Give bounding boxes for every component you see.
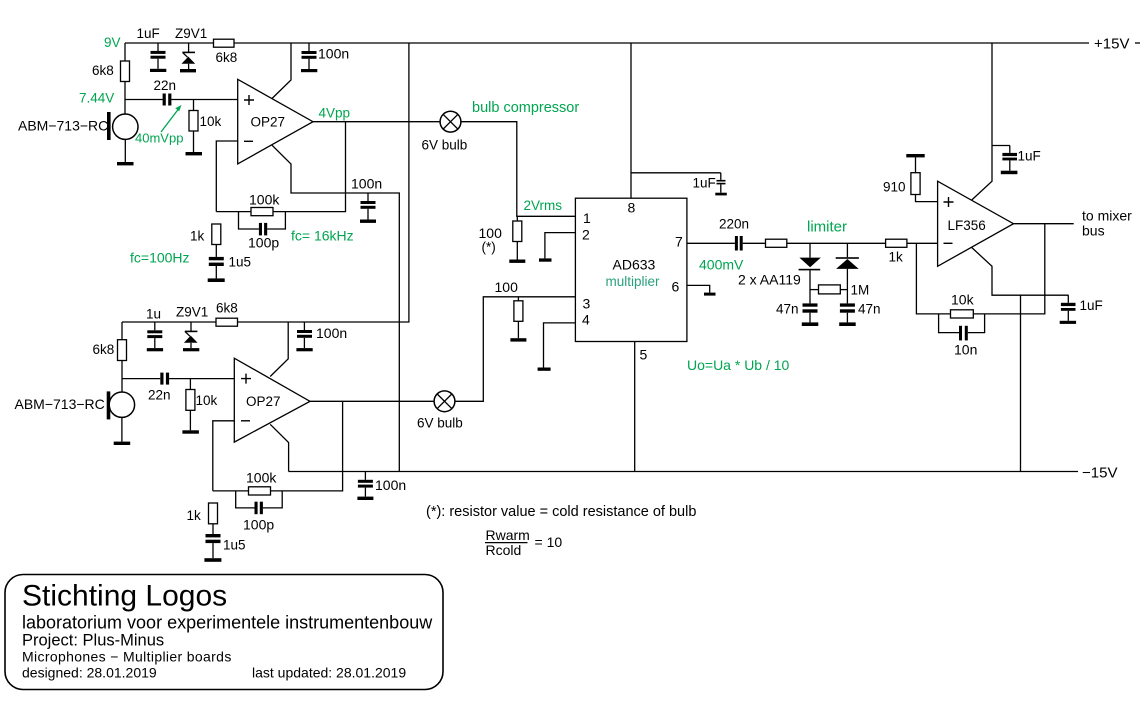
wire LF356 output xyxy=(1014,223,1074,225)
capacitor 1uF (ch1 9V decoupling) xyxy=(157,43,159,52)
ground (zener ch2) xyxy=(183,348,199,351)
svg-text:ABM−713−RC: ABM−713−RC xyxy=(15,396,105,412)
svg-text:400mV: 400mV xyxy=(699,257,744,273)
svg-text:LF356: LF356 xyxy=(948,218,986,233)
wire -15V rail xyxy=(289,471,1078,473)
wire 220n to series resistor xyxy=(743,242,766,244)
wire 22n ch2 to opamp xyxy=(169,378,234,380)
op-amp LF356 xyxy=(938,181,1014,266)
resistor 1k (LF356 input) xyxy=(886,239,907,247)
resistor 1M xyxy=(810,289,819,291)
ground (100n ch2 V+) xyxy=(296,348,312,351)
wire OP27 ch1 V+ pin to +15V xyxy=(272,43,291,99)
ground (47n left) xyxy=(802,322,819,326)
svg-text:Project: Plus-Minus: Project: Plus-Minus xyxy=(22,632,164,650)
svg-text:+15V: +15V xyxy=(1094,36,1129,53)
wire mic2 node to 22n xyxy=(122,378,160,380)
svg-text:limiter: limiter xyxy=(807,219,847,236)
wire bulb ch1 to AD633 pin1 xyxy=(461,122,575,217)
ground (1uF LF356 V-) xyxy=(1060,321,1076,324)
svg-text:OP27: OP27 xyxy=(246,394,281,409)
resistor 100 (ch2 bulb load) xyxy=(517,297,519,301)
svg-text:2Vrms: 2Vrms xyxy=(524,198,563,213)
svg-text:designed: 28.01.2019: designed: 28.01.2019 xyxy=(22,665,157,681)
ground (1u5 ch2) xyxy=(204,558,221,562)
svg-text:100n: 100n xyxy=(318,46,349,62)
wire V- to -15V rail xyxy=(1020,295,1022,471)
wire AD633 pin8 to +15V xyxy=(630,43,632,198)
ground (100 ch2) xyxy=(510,338,526,341)
wire AD633 pin6 to ground xyxy=(687,285,710,292)
lamp 6V bulb (ch1) xyxy=(440,111,461,132)
resistor (series, unlabeled) xyxy=(766,239,787,247)
resistor 1k (ch2) xyxy=(209,503,218,524)
wire V+ decoupling branch xyxy=(992,145,1010,147)
resistor 10k (ch2) xyxy=(189,379,191,390)
svg-text:8: 8 xyxy=(628,200,636,216)
svg-text:6k8: 6k8 xyxy=(92,63,114,78)
capacitor 47n (right) xyxy=(840,303,855,306)
wire LF356 feedback xyxy=(916,224,1044,314)
resistor 10k (LF356 feedback) xyxy=(951,310,974,318)
ground (mic ch1) xyxy=(117,162,134,165)
resistor 10k (ch1) xyxy=(193,100,195,111)
capacitor 100n (ch2 V+ decoupling) xyxy=(303,322,305,330)
wire AD633 pin5 to -15V xyxy=(634,342,636,472)
svg-text:Stichting Logos: Stichting Logos xyxy=(22,580,227,613)
resistor 100k (ch2) xyxy=(249,487,271,495)
svg-text:2 x AA119: 2 x AA119 xyxy=(738,272,801,288)
diode AA119 (left, anode up) xyxy=(809,243,811,257)
resistor 6k8 (ch1 horizontal from +15V) xyxy=(214,39,235,47)
svg-text:1u5: 1u5 xyxy=(223,538,246,553)
op-amp OP27 (ch1) xyxy=(238,79,313,164)
wire 22n to opamp xyxy=(171,99,237,101)
svg-text:10k: 10k xyxy=(196,393,218,408)
svg-text:7: 7 xyxy=(675,234,683,250)
svg-text:6: 6 xyxy=(672,279,680,295)
svg-text:6k8: 6k8 xyxy=(216,50,238,65)
svg-text:to mixer: to mixer xyxy=(1082,208,1132,224)
svg-text:2: 2 xyxy=(582,227,590,243)
svg-text:22n: 22n xyxy=(148,388,171,403)
resistor 910 xyxy=(915,157,917,172)
ground (100n ch1 V-) xyxy=(360,220,376,223)
ground (100n ch1 V+) xyxy=(301,69,317,72)
wire 9V2 node vertical xyxy=(121,322,123,340)
capacitor 1uF (LF356 V- decoupling) xyxy=(1067,295,1069,303)
svg-text:10k: 10k xyxy=(951,292,975,308)
wire LF356 V+ pin to +15V xyxy=(972,43,992,200)
svg-text:Uo=Ua * Ub / 10: Uo=Ua * Ub / 10 xyxy=(687,357,790,373)
ground (1u5 ch1) xyxy=(208,278,225,282)
svg-text:Z9V1: Z9V1 xyxy=(175,26,207,41)
resistor 100 (ch1 bulb load) xyxy=(516,216,518,221)
svg-text:4Vpp: 4Vpp xyxy=(319,106,351,121)
svg-text:(*): resistor value = cold res: (*): resistor value = cold resistance of… xyxy=(426,504,696,520)
svg-text:100: 100 xyxy=(495,279,519,295)
svg-text:1: 1 xyxy=(583,210,591,226)
op-amp OP27 (ch2) xyxy=(234,358,310,442)
svg-text:1k: 1k xyxy=(187,508,202,523)
ground (1u ch2) xyxy=(147,348,163,351)
svg-text:6V bulb: 6V bulb xyxy=(422,138,468,153)
capacitor 100n (ch1 V+ decoupling) xyxy=(308,43,310,51)
capacitor 1uF (LF356 V+ decoupling) xyxy=(1009,146,1011,153)
wire OP27 ch1 V- pin xyxy=(272,145,399,471)
wire OP27 ch1 output xyxy=(313,121,440,123)
svg-text:100n: 100n xyxy=(316,325,347,341)
ground (100n ch2 V-) xyxy=(357,497,373,500)
resistor 1k (ch1) xyxy=(212,224,221,245)
svg-text:910: 910 xyxy=(883,180,906,195)
svg-text:3: 3 xyxy=(583,296,591,312)
capacitor 22n (ch2) xyxy=(160,373,163,385)
ground (1uF pin8) xyxy=(715,193,727,196)
ground (10k ch2) xyxy=(182,430,199,433)
svg-text:1u: 1u xyxy=(146,307,161,322)
resistor 6k8 (ch2 vertical) xyxy=(118,340,127,361)
wire 6k8 to mic node xyxy=(124,82,126,100)
svg-text:multiplier: multiplier xyxy=(606,274,661,289)
capacitor 1uF (AD633 pin8 decoupling) xyxy=(720,173,722,180)
capacitor 220n xyxy=(735,236,738,251)
wire ch2 supply from +15V rail xyxy=(122,43,409,322)
wire OP27 ch2 V- pin to -15V xyxy=(270,424,288,471)
wire LF356 V- pin xyxy=(972,247,1069,295)
ground (47n right) xyxy=(839,322,856,326)
svg-text:9V: 9V xyxy=(104,35,121,50)
ground (10k ch1) xyxy=(186,152,203,155)
wire pin8 decoupling branch xyxy=(631,172,721,174)
capacitor 22n (ch1) xyxy=(163,94,166,106)
ground (1uF ch1) xyxy=(150,69,166,72)
title block frame xyxy=(5,575,443,690)
svg-text:40mVpp: 40mVpp xyxy=(135,131,183,146)
wire AD633 pin2 to ground xyxy=(545,233,576,259)
svg-text:5: 5 xyxy=(640,347,648,363)
svg-text:47n: 47n xyxy=(858,302,881,317)
wire mic node to 22n xyxy=(125,99,163,101)
resistor 100k (ch1) xyxy=(251,208,273,216)
wire resistor to 1k xyxy=(787,242,886,244)
capacitor 100p (ch2) xyxy=(236,491,255,508)
wire 9V node vertical xyxy=(124,43,126,61)
svg-text:100k: 100k xyxy=(246,470,277,486)
svg-text:1k: 1k xyxy=(190,229,205,244)
capacitor 10n (LF356 feedback) xyxy=(939,314,959,333)
capacitor 1u (ch2 9V decoupling) xyxy=(154,322,156,330)
svg-text:bus: bus xyxy=(1082,223,1105,239)
svg-text:last updated: 28.01.2019: last updated: 28.01.2019 xyxy=(252,665,406,681)
svg-text:1uF: 1uF xyxy=(1018,149,1041,164)
svg-text:(*): (*) xyxy=(482,240,496,255)
lamp 6V bulb (ch2) xyxy=(434,391,455,412)
svg-text:Rwarm: Rwarm xyxy=(486,527,530,543)
wire bulb ch2 to AD633 pin3 xyxy=(455,297,575,402)
wire 910 to LF356 + input xyxy=(916,195,938,202)
svg-text:1uF: 1uF xyxy=(1080,298,1103,313)
svg-text:bulb compressor: bulb compressor xyxy=(472,100,579,116)
ground (pin4) xyxy=(538,368,551,371)
svg-text:laboratorium voor experimentel: laboratorium voor experimentele instrume… xyxy=(22,613,433,633)
svg-text:−15V: −15V xyxy=(1082,465,1117,482)
svg-text:Z9V1: Z9V1 xyxy=(176,305,208,320)
svg-text:100k: 100k xyxy=(249,192,280,208)
wire feedback ch1 xyxy=(216,122,345,212)
wire 1k to LF356 inverting input xyxy=(907,242,938,244)
svg-text:OP27: OP27 xyxy=(251,115,286,130)
svg-text:= 10: = 10 xyxy=(535,534,563,550)
svg-text:1k: 1k xyxy=(889,250,904,265)
ground (pin2) xyxy=(539,258,552,261)
capacitor 1u5 (ch2) xyxy=(206,534,221,537)
wire AD633 pin7 output xyxy=(687,242,735,244)
wire AD633 pin4 to ground xyxy=(544,323,576,368)
resistor 6k8 (ch2 horizontal from +15V) xyxy=(216,318,238,326)
wire 6k8 ch2 to mic node xyxy=(121,361,123,379)
svg-text:220n: 220n xyxy=(719,217,749,232)
svg-text:100n: 100n xyxy=(351,176,382,192)
svg-text:ABM−713−RC: ABM−713−RC xyxy=(18,118,108,134)
diode AA119 (right, cathode up) xyxy=(846,243,848,257)
svg-text:22n: 22n xyxy=(154,78,177,93)
ground (mic ch2) xyxy=(114,442,131,445)
svg-text:4: 4 xyxy=(582,312,590,328)
capacitor 47n (left) xyxy=(803,303,818,306)
wire feedback ch2 xyxy=(213,401,343,491)
wire +15V rail xyxy=(125,42,1089,44)
ground (100 ch1) xyxy=(509,260,525,263)
svg-text:10k: 10k xyxy=(200,114,222,129)
wire OP27 ch2 inverting input xyxy=(213,421,235,491)
svg-text:7.44V: 7.44V xyxy=(79,91,114,106)
svg-text:Microphones − Multiplier board: Microphones − Multiplier boards xyxy=(22,649,232,665)
svg-text:Rcold: Rcold xyxy=(486,542,522,558)
svg-text:fc=100Hz: fc=100Hz xyxy=(130,250,190,266)
svg-text:1u5: 1u5 xyxy=(229,255,252,270)
ground (zener ch1) xyxy=(180,69,196,72)
wire OP27 ch2 output xyxy=(310,400,434,402)
resistor 6k8 (ch1 vertical) xyxy=(121,61,130,82)
svg-text:100n: 100n xyxy=(375,477,406,493)
svg-text:AD633: AD633 xyxy=(613,257,656,273)
svg-text:6k8: 6k8 xyxy=(216,301,238,316)
power tap bar (910) xyxy=(906,154,924,157)
wire OP27 ch1 inverting input xyxy=(216,141,237,212)
multiplier U AD633 xyxy=(575,198,687,341)
svg-text:1M: 1M xyxy=(851,283,870,298)
capacitor 100n (ch2 V- decoupling below rail) xyxy=(364,472,366,480)
svg-text:1uF: 1uF xyxy=(693,176,716,191)
zener Z9V1 (ch1) xyxy=(188,43,190,52)
capacitor 100n (ch1 V- decoupling) xyxy=(367,193,369,201)
svg-text:6V bulb: 6V bulb xyxy=(417,416,463,431)
capacitor 100p (ch1) xyxy=(239,212,259,229)
svg-text:47n: 47n xyxy=(776,302,799,317)
ground (pin6) xyxy=(704,293,716,296)
svg-text:100p: 100p xyxy=(248,235,279,251)
svg-text:10n: 10n xyxy=(954,342,977,358)
wire +15V rail stub right xyxy=(1135,42,1140,44)
zener Z9V1 (ch2) xyxy=(190,322,192,331)
capacitor 1u5 (ch1) xyxy=(209,257,224,260)
ground (1uF LF356 V+) xyxy=(1001,171,1018,175)
svg-text:1uF: 1uF xyxy=(137,26,160,41)
svg-text:6k8: 6k8 xyxy=(93,342,115,357)
svg-text:100p: 100p xyxy=(243,517,274,533)
svg-text:fc= 16kHz: fc= 16kHz xyxy=(291,228,354,244)
wire OP27 ch2 V+ pin from ch2 supply xyxy=(270,322,288,377)
